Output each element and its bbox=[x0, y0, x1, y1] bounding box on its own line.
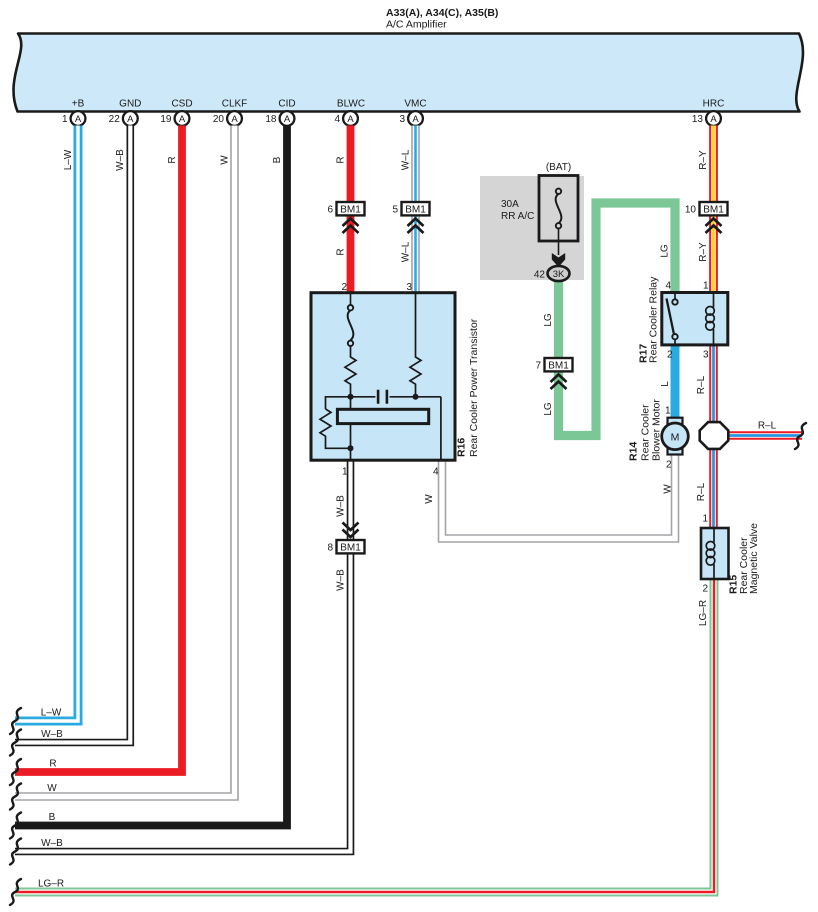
svg-text:W–B: W–B bbox=[41, 838, 63, 849]
connector BM1 pin 5 (on VMC W-L wire) bbox=[392, 202, 429, 233]
svg-text:W–B: W–B bbox=[41, 729, 63, 740]
svg-text:CSD: CSD bbox=[171, 99, 192, 110]
capacitor C bbox=[378, 390, 387, 404]
svg-text:R–L: R–L bbox=[696, 375, 707, 394]
svg-text:W–B: W–B bbox=[115, 149, 126, 171]
svg-text:20: 20 bbox=[213, 114, 225, 125]
wire LG from junction 3K through BM1 7 to R17 relay pin 4 bbox=[559, 203, 676, 436]
svg-text:4: 4 bbox=[665, 281, 671, 292]
svg-text:Magnetic Valve: Magnetic Valve bbox=[748, 523, 760, 594]
wire from fuse to junction 3K with arrow bbox=[552, 229, 565, 268]
svg-text:+B: +B bbox=[72, 99, 85, 110]
left edge break symbol for W wire bbox=[10, 784, 21, 810]
svg-text:A: A bbox=[75, 114, 82, 125]
svg-text:8: 8 bbox=[327, 543, 333, 554]
svg-text:A: A bbox=[231, 114, 238, 125]
svg-text:1: 1 bbox=[62, 114, 68, 125]
svg-text:A33(A), A34(C), A35(B): A33(A), A34(C), A35(B) bbox=[386, 7, 498, 19]
pin CLKF (A pin 20) bbox=[213, 99, 247, 126]
fuse block shading (junction block area) bbox=[480, 176, 584, 280]
svg-text:A: A bbox=[127, 114, 134, 125]
svg-text:B: B bbox=[49, 812, 56, 823]
svg-text:1: 1 bbox=[703, 281, 709, 292]
svg-text:Blower Motor: Blower Motor bbox=[651, 399, 663, 461]
wire B from CID pin 18 to left edge exit bbox=[15, 126, 287, 826]
R16 internal base line with capacitor bbox=[326, 397, 441, 409]
svg-text:10: 10 bbox=[685, 205, 697, 216]
relay switch contact stubs bbox=[674, 294, 676, 344]
R16 internal resistor (right, from pin 3) bbox=[410, 294, 421, 397]
svg-text:LG: LG bbox=[543, 313, 554, 327]
svg-text:A: A bbox=[179, 114, 186, 125]
svg-text:BM1: BM1 bbox=[548, 361, 569, 372]
svg-text:BM1: BM1 bbox=[340, 543, 361, 554]
svg-text:LG: LG bbox=[660, 244, 671, 258]
wire W from R16 pin 4 to R14 motor pin 2 bbox=[442, 453, 675, 539]
node pin3 junction bbox=[413, 394, 419, 400]
svg-text:R–Y: R–Y bbox=[698, 150, 709, 170]
wire R-L from junction to right edge exit bbox=[714, 431, 803, 440]
svg-text:L–W: L–W bbox=[41, 708, 62, 719]
wire R-L from R17 relay pin 3 through junction to R15 valve pin 1 bbox=[709, 344, 718, 529]
svg-text:W: W bbox=[663, 484, 674, 494]
svg-text:A/C Amplifier: A/C Amplifier bbox=[386, 19, 447, 31]
svg-text:2: 2 bbox=[702, 584, 708, 595]
left edge break symbol for W-B wire bbox=[10, 730, 21, 756]
svg-text:L–W: L–W bbox=[63, 149, 74, 170]
node base junction bbox=[348, 394, 354, 400]
svg-text:R16: R16 bbox=[456, 438, 468, 457]
pin CID (A pin 18) bbox=[265, 99, 295, 126]
wire W-B from R16 pin 1 through BM1 8 to left edge exit bbox=[15, 460, 351, 852]
svg-text:A: A bbox=[412, 114, 419, 125]
svg-text:W–B: W–B bbox=[336, 569, 347, 591]
connector BM1 pin 10 (on HRC R-Y wire) bbox=[685, 202, 728, 233]
svg-text:R14: R14 bbox=[628, 442, 640, 461]
svg-text:LG–R: LG–R bbox=[698, 600, 709, 626]
svg-text:CID: CID bbox=[278, 99, 295, 110]
R15 coil bbox=[713, 529, 715, 578]
pin VMC (A pin 3) bbox=[399, 99, 426, 126]
transistor assembly R16 Rear Cooler Power Transistor bbox=[311, 282, 480, 478]
svg-text:M: M bbox=[671, 432, 680, 444]
svg-text:R: R bbox=[336, 156, 347, 163]
pin GND (A pin 22) bbox=[109, 99, 142, 126]
svg-text:W–L: W–L bbox=[401, 149, 412, 170]
right edge break symbol for R-L wire bbox=[795, 423, 806, 449]
svg-text:2: 2 bbox=[341, 282, 347, 293]
junction connector 42 3K bbox=[534, 266, 570, 281]
wire R from CSD pin 19 to left edge exit bbox=[15, 126, 182, 773]
relay switch arm bbox=[667, 299, 674, 334]
R16 internal resistor (left) bbox=[345, 346, 356, 397]
transistor bar bbox=[337, 409, 428, 423]
svg-text:LG: LG bbox=[543, 402, 554, 416]
svg-text:4: 4 bbox=[433, 467, 439, 478]
svg-text:19: 19 bbox=[160, 114, 172, 125]
svg-text:A: A bbox=[347, 114, 354, 125]
svg-text:1: 1 bbox=[702, 514, 708, 525]
connector BM1 pin 7 (on LG wire) bbox=[535, 358, 572, 389]
svg-text:RR A/C: RR A/C bbox=[501, 211, 534, 222]
wire L from R17 relay pin 2 to R14 motor pin 1 bbox=[671, 344, 680, 419]
svg-text:BM1: BM1 bbox=[405, 205, 426, 216]
svg-text:W–L: W–L bbox=[401, 241, 412, 262]
pin BLWC (A pin 4) bbox=[334, 99, 365, 126]
svg-text:W: W bbox=[424, 494, 435, 504]
node emitter junction bbox=[348, 445, 354, 451]
wire R from BLWC pin 4 to R16 pin 2 bbox=[347, 126, 355, 295]
svg-text:Rear Cooler Relay: Rear Cooler Relay bbox=[648, 276, 660, 363]
svg-text:L: L bbox=[660, 381, 671, 387]
svg-text:6: 6 bbox=[327, 205, 333, 216]
svg-text:18: 18 bbox=[265, 114, 277, 125]
svg-text:2: 2 bbox=[667, 350, 673, 361]
R16 internal resistor (bias, lower left) bbox=[320, 409, 351, 448]
wire W-L from VMC pin 3 to R16 pin 3 bbox=[411, 126, 420, 295]
valve R15 Rear Cooler Magnetic Valve bbox=[701, 514, 760, 595]
svg-text:3: 3 bbox=[406, 282, 412, 293]
svg-text:1: 1 bbox=[665, 406, 671, 417]
svg-text:2: 2 bbox=[666, 460, 672, 471]
svg-text:HRC: HRC bbox=[703, 99, 725, 110]
svg-text:R–Y: R–Y bbox=[698, 242, 709, 262]
wire LG-R from R15 pin 2 to left edge exit bbox=[15, 578, 714, 892]
svg-text:A: A bbox=[284, 114, 291, 125]
svg-text:5: 5 bbox=[392, 205, 398, 216]
pin HRC (A pin 13) bbox=[692, 99, 724, 126]
A/C Amplifier banner A33/A34/A35 bbox=[13, 34, 802, 112]
svg-text:(BAT): (BAT) bbox=[546, 162, 571, 173]
svg-text:W: W bbox=[47, 783, 57, 794]
svg-text:VMC: VMC bbox=[404, 99, 426, 110]
left edge break symbol for R wire bbox=[10, 759, 21, 785]
svg-text:W–B: W–B bbox=[336, 495, 347, 517]
svg-text:R–L: R–L bbox=[758, 421, 777, 432]
wire W-B from GND pin 22 to left edge exit bbox=[15, 126, 130, 743]
left edge break symbol for W-B wire bbox=[10, 839, 21, 865]
R16 internal thermal fuse from pin 2 bbox=[350, 294, 352, 305]
svg-text:13: 13 bbox=[692, 114, 704, 125]
relay R17 Rear Cooler Relay bbox=[638, 276, 728, 363]
svg-text:22: 22 bbox=[109, 114, 121, 125]
R16 collector line to pin 4 bbox=[440, 397, 442, 459]
svg-text:3K: 3K bbox=[553, 269, 565, 280]
svg-text:R: R bbox=[49, 759, 56, 770]
left edge break symbol for L-W wire bbox=[10, 708, 21, 734]
svg-text:3: 3 bbox=[399, 114, 405, 125]
svg-text:30A: 30A bbox=[501, 199, 519, 210]
motor R14 Rear Cooler Blower Motor bbox=[628, 399, 689, 471]
svg-text:BM1: BM1 bbox=[340, 205, 361, 216]
left edge break symbol for B wire bbox=[10, 813, 21, 839]
connector BM1 pin 8 (on W-B wire) bbox=[327, 523, 364, 554]
wire W from CLKF pin 20 to left edge exit bbox=[15, 126, 235, 797]
svg-text:W: W bbox=[220, 155, 231, 165]
wire L-W from +B pin 1 to left edge exit bbox=[15, 126, 78, 722]
pin +B (A pin 1) bbox=[62, 99, 85, 126]
svg-text:R–L: R–L bbox=[696, 482, 707, 501]
left edge break symbol for LG-R wire bbox=[10, 879, 21, 905]
svg-text:R: R bbox=[336, 248, 347, 255]
svg-text:42: 42 bbox=[534, 270, 546, 281]
svg-text:Rear Cooler Power Transistor: Rear Cooler Power Transistor bbox=[468, 318, 480, 457]
svg-text:CLKF: CLKF bbox=[222, 99, 248, 110]
svg-text:BLWC: BLWC bbox=[337, 99, 365, 110]
R16 emitter line pin 1 bbox=[350, 397, 352, 459]
svg-text:R: R bbox=[167, 156, 178, 163]
connector BM1 pin 6 (on BLWC R wire) bbox=[327, 202, 364, 233]
svg-text:A: A bbox=[710, 114, 717, 125]
wire R-Y from HRC pin 13 to R17 relay pin 1 bbox=[709, 126, 718, 295]
svg-text:LG–R: LG–R bbox=[38, 879, 64, 890]
pin CSD (A pin 19) bbox=[160, 99, 192, 126]
junction node (octagon) R-L bbox=[700, 422, 729, 449]
relay coil bbox=[713, 294, 715, 344]
svg-text:1: 1 bbox=[342, 467, 348, 478]
svg-text:GND: GND bbox=[119, 99, 141, 110]
svg-text:B: B bbox=[272, 156, 283, 163]
fuse 30A RR A/C bbox=[501, 176, 578, 242]
svg-text:BM1: BM1 bbox=[703, 205, 724, 216]
svg-text:7: 7 bbox=[535, 361, 541, 372]
svg-text:4: 4 bbox=[334, 114, 340, 125]
svg-text:3: 3 bbox=[703, 350, 709, 361]
